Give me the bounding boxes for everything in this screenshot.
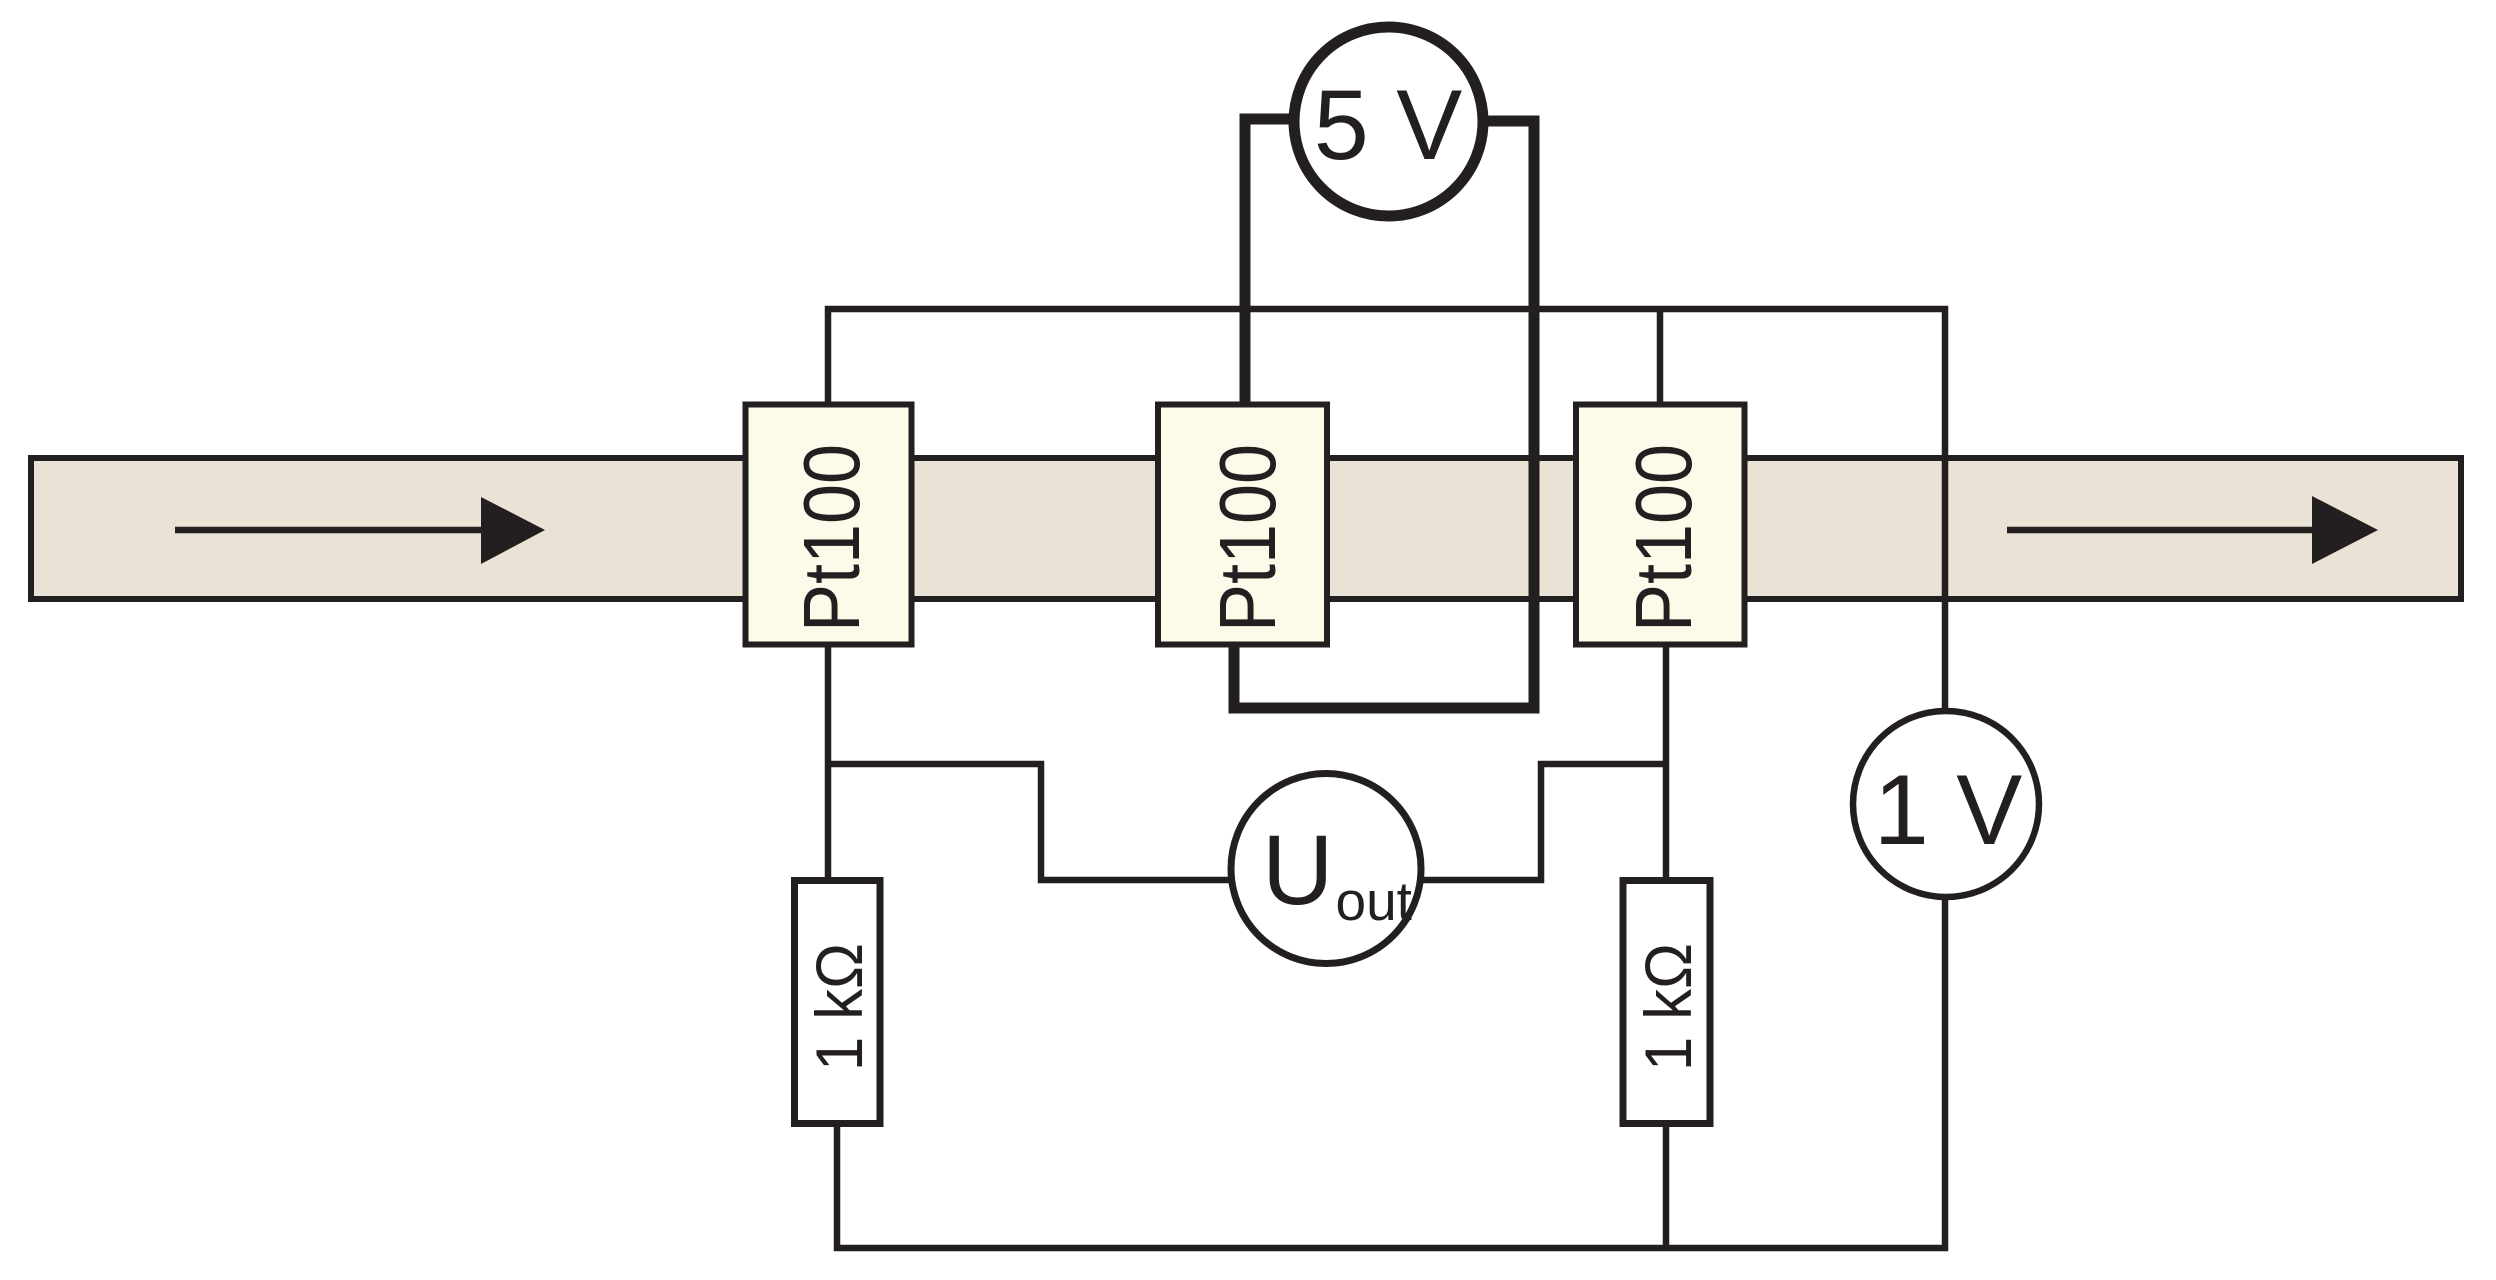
wire: R2 bottom to bottom bus (T junction) (1663, 1124, 1670, 1248)
wire: top bus from left Pt100 top to 1V meter (right vertical) (828, 309, 1945, 710)
meter V2 1 V (1853, 711, 2039, 897)
svg-text:Pt100: Pt100 (787, 444, 876, 632)
resistor R1 1 kOhm (795, 881, 881, 1124)
svg-text:Pt100: Pt100 (1619, 444, 1708, 632)
svg-text:5 V: 5 V (1314, 69, 1463, 180)
wire: bottom bus from R1 to 1V meter bottom (837, 898, 1945, 1248)
source V1 5 V (1294, 27, 1483, 216)
heater Pt100 middle (1158, 405, 1327, 645)
svg-text:1 V: 1 V (1874, 754, 2023, 865)
svg-text:1 kΩ: 1 kΩ (802, 943, 876, 1071)
wire: top bus drop to right Pt100 top (1657, 309, 1664, 406)
wire: 5V source right lead down and U-loop to middle Pt100 bottom (thick) (1234, 121, 1534, 708)
flow tube channel (31, 458, 2461, 599)
wire: left branch to Uout meter (junction at left Pt100 wire) (828, 764, 1232, 880)
svg-text:1 kΩ: 1 kΩ (1631, 943, 1705, 1071)
wire: 5V source left lead to middle Pt100 top (thick) (1245, 119, 1298, 404)
flow direction arrow (outlet) (2007, 496, 2378, 564)
wire: right Pt100 bottom to resistor R2 (1663, 644, 1670, 880)
wire: right branch to Uout meter (junction at right Pt100 wire) (1419, 764, 1666, 880)
sensor Pt100 left (upstream) (746, 405, 912, 645)
flow direction arrow (inlet) (175, 497, 545, 564)
sensor Pt100 right (downstream) (1576, 405, 1745, 645)
wire: left Pt100 bottom to resistor R1 (825, 644, 832, 880)
resistor R2 1 kOhm (1623, 881, 1710, 1124)
meter Uout (1231, 774, 1421, 964)
svg-text:Pt100: Pt100 (1203, 444, 1292, 632)
